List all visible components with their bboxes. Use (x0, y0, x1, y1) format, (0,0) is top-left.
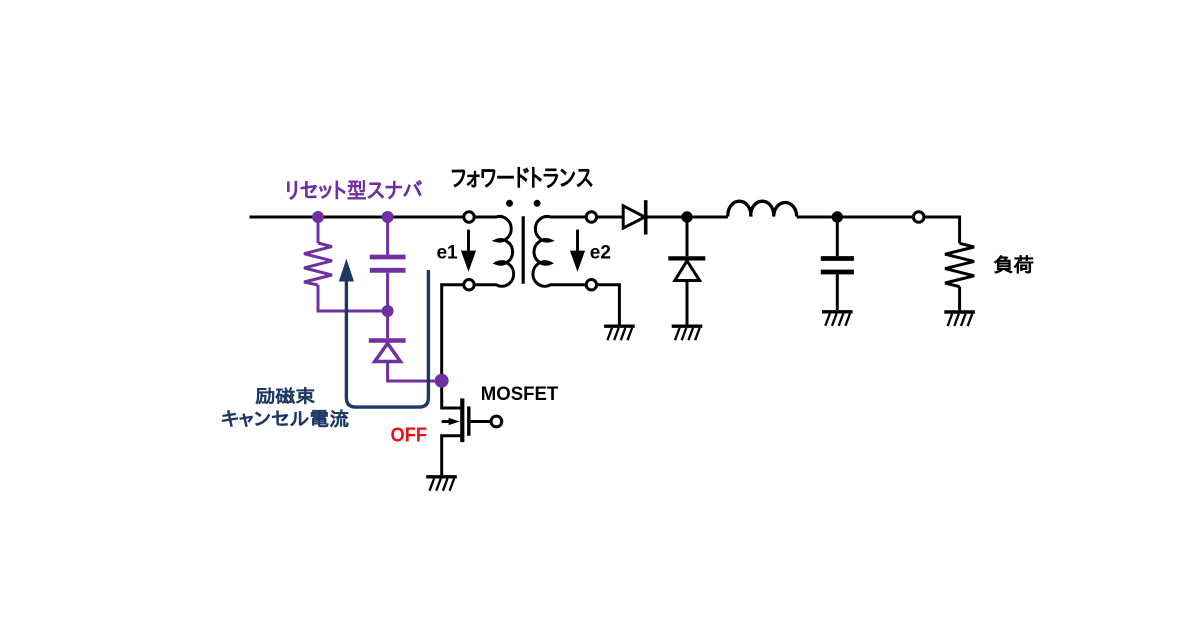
diode (snubber reset, cathode up) (369, 341, 406, 362)
ground (freewheel diode) (672, 326, 703, 340)
junction snubber top-left node (312, 211, 324, 223)
wire main top rail (input) (250, 216, 464, 219)
wire snubber diode bottom lead to MOSFET drain node (388, 362, 442, 382)
inductor output filter (728, 201, 797, 216)
wire filter capacitor top lead (836, 217, 839, 256)
wire secondary bottom to ground (597, 285, 620, 325)
wire freewheel diode top lead (686, 217, 689, 256)
wire filter capacitor bottom lead to ground (836, 274, 839, 310)
wire inductor to output node (797, 216, 914, 219)
arrow e2 voltage (570, 230, 585, 272)
transistor MOSFET (N-channel) (442, 399, 492, 476)
terminal MOSFET gate (491, 416, 502, 427)
wire snubber resistor bottom lead (318, 285, 382, 311)
svg-text:e1: e1 (436, 243, 458, 264)
ground (MOSFET source) (426, 477, 457, 491)
junction snubber top-right node (382, 211, 394, 223)
ground (load) (944, 312, 975, 326)
transformer secondary winding (533, 217, 586, 287)
svg-text:OFF: OFF (391, 424, 428, 446)
terminal primary bottom (464, 280, 474, 290)
junction snubber RC bottom node (382, 305, 394, 317)
label キャンセル電流 (cancel current) line 2 (222, 410, 348, 428)
junction rectifier/freewheel node (681, 211, 692, 222)
diode rectifier (series, pointing right) (623, 200, 646, 234)
transformer primary winding (474, 217, 513, 287)
junction filter capacitor node (832, 211, 843, 222)
transformer core (522, 216, 525, 283)
wire rectifier to inductor (648, 216, 728, 219)
terminal output (913, 212, 924, 223)
resistor load (945, 243, 974, 286)
terminal primary top (464, 212, 474, 222)
terminal secondary bottom (586, 280, 596, 290)
capacitor output filter (821, 259, 854, 273)
resistor (snubber) (304, 243, 332, 285)
junction snubber-to-drain node (435, 374, 449, 388)
ground (filter capacitor) (822, 312, 853, 326)
arrow flux-cancel current direction (339, 259, 354, 282)
wire output terminal to load (924, 217, 960, 243)
capacitor (snubber) (370, 257, 406, 270)
svg-text:e2: e2 (590, 243, 611, 264)
terminal secondary top (586, 212, 596, 222)
wire flux-cancel current loop (navy U path) (346, 270, 428, 407)
wire primary bottom to MOSFET drain (442, 285, 464, 408)
wire freewheel diode bottom lead to ground (686, 281, 689, 325)
wire secondary top to rectifier diode (597, 216, 624, 219)
label 負荷 (load) (994, 256, 1033, 274)
wire load bottom lead to ground (958, 287, 961, 311)
diode freewheel (cathode up) (668, 258, 705, 280)
polarity dot secondary (534, 200, 541, 207)
ground (secondary) (604, 326, 635, 340)
polarity dot primary (506, 200, 513, 207)
arrow e1 voltage (461, 230, 476, 272)
svg-text:MOSFET: MOSFET (481, 384, 559, 405)
wire snubber capacitor bottom lead (386, 273, 389, 339)
label 励磁束 (magnetizing flux) line 1 (256, 388, 314, 404)
arrow MOSFET body (pointing right) (449, 418, 460, 425)
wire snubber resistor top lead (317, 217, 320, 243)
label リセット型スナバ (reset-type snubber) (288, 180, 422, 199)
label フォワードトランス (forward transformer) (452, 167, 592, 187)
wire snubber capacitor top lead (386, 217, 389, 255)
